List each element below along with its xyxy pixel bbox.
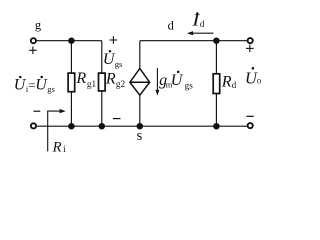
- label Rg2: [105, 70, 126, 89]
- wire gm source bottom stub: [139, 95, 141, 126]
- arrow Ri input resistance pointer: [48, 109, 66, 151]
- junction dot Rd bottom: [213, 123, 220, 130]
- label Id with dot: [191, 11, 205, 29]
- svg-text:s: s: [137, 128, 143, 144]
- resistor Rg2: [99, 73, 106, 91]
- svg-text:gs: gs: [47, 84, 55, 94]
- junction dot Rg1 bottom: [68, 123, 75, 130]
- svg-text:R: R: [52, 139, 62, 155]
- svg-text:d: d: [168, 18, 175, 32]
- junction dot Rg1 top: [68, 37, 75, 44]
- terminal g: [31, 38, 36, 43]
- resistor Rd: [213, 74, 220, 94]
- label gm Ugs: [159, 71, 193, 91]
- wire Rd branch top stub: [215, 41, 217, 74]
- svg-text:U: U: [14, 76, 27, 93]
- label Ri: [52, 139, 67, 155]
- svg-text:i: i: [63, 145, 66, 155]
- svg-text:d: d: [200, 19, 205, 29]
- wire Rg2 branch bottom stub: [101, 91, 103, 126]
- resistor Rg1: [68, 73, 75, 92]
- svg-text:gs: gs: [185, 80, 194, 90]
- svg-text:g: g: [35, 18, 42, 32]
- arrow of gm Ugs current direction: [156, 68, 160, 96]
- polarity + at Ugs top: [110, 36, 118, 44]
- terminal bottom-right: [248, 123, 253, 128]
- polarity - at bottom-right terminal: [246, 115, 253, 117]
- svg-text:g1: g1: [87, 79, 97, 89]
- wire gm source top stub: [139, 41, 141, 69]
- svg-text:U: U: [35, 76, 48, 93]
- label Ui = Ugs: [14, 76, 55, 94]
- junction dot Rd top: [213, 37, 220, 44]
- terminal bottom-left: [31, 123, 36, 128]
- svg-text:R: R: [221, 74, 232, 91]
- polarity - at bottom-left terminal: [34, 110, 41, 112]
- junction dot s node: [137, 123, 144, 130]
- svg-text:gs: gs: [115, 59, 123, 69]
- wire Rg1 branch top stub: [70, 41, 72, 73]
- wire Rg2 branch top stub: [101, 41, 103, 73]
- svg-text:R: R: [105, 70, 116, 87]
- label Ugs at Rg2: [103, 50, 122, 69]
- arrow of current Id: [187, 31, 214, 35]
- label Rd: [221, 74, 237, 91]
- svg-text:d: d: [232, 80, 237, 90]
- junction dot Rg2 bottom: [99, 123, 106, 130]
- svg-text:U: U: [171, 72, 184, 89]
- wire top-right d line: [140, 40, 248, 42]
- terminal top-right: [248, 38, 253, 43]
- svg-text:o: o: [257, 75, 262, 85]
- polarity + at g terminal: [29, 47, 37, 55]
- wire top-left g to Rg2: [36, 40, 102, 42]
- polarity + at top-right terminal: [246, 45, 254, 53]
- wire bottom rail: [36, 125, 247, 127]
- label Uo: [245, 67, 262, 88]
- dependent current source gmUgs diamond: [130, 68, 150, 95]
- svg-text:R: R: [75, 70, 86, 87]
- wire Rg1 branch bottom stub: [70, 92, 72, 127]
- svg-text:g2: g2: [116, 79, 126, 89]
- wire Rd branch bottom stub: [215, 94, 217, 127]
- label Rg1: [75, 70, 96, 89]
- polarity - at Ugs bottom: [113, 118, 121, 120]
